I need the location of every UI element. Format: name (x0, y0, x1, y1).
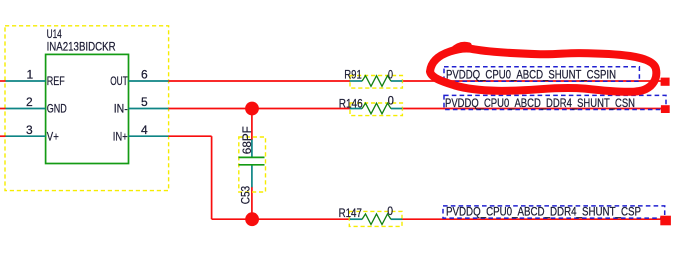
svg-text:0: 0 (387, 204, 393, 218)
pin 4 stub (129, 135, 169, 137)
wire IN+ net: vertical drop (211, 136, 213, 219)
wire bottom net: R147 to off-page square (402, 218, 661, 220)
svg-text:IN-: IN- (114, 102, 128, 116)
wire capacitor branch bottom (251, 187, 253, 219)
pin 5 stub (129, 108, 169, 110)
svg-text:3: 3 (26, 123, 33, 137)
svg-text:1: 1 (26, 68, 33, 82)
amplifier U14 (INA213 current-sense amp) body (46, 54, 129, 163)
annotation: red freehand circle around CSPIN (430, 48, 656, 91)
svg-text:IN+: IN+ (113, 129, 128, 143)
svg-text:0: 0 (388, 68, 393, 82)
wire OUT net: R91 to off-page square (402, 80, 661, 82)
svg-text:PVDDQ_CPU0_ABCD_SHUNT_CSPIN: PVDDQ_CPU0_ABCD_SHUNT_CSPIN (446, 68, 616, 82)
pin 1 stub (6, 80, 46, 82)
pin 6 stub (129, 80, 169, 82)
svg-text:R91: R91 (344, 68, 362, 82)
annotation: pen overshoot at top-left of circle (452, 45, 469, 51)
svg-text:5: 5 (141, 95, 148, 109)
off-page connector square (CSP) (660, 216, 671, 226)
wire IN+ net: pin4 horizontal (169, 135, 212, 137)
resistor R147 (349, 211, 402, 226)
svg-text:6: 6 (141, 68, 148, 82)
svg-text:V+: V+ (47, 129, 59, 143)
wire pin1 left stub (0, 80, 6, 82)
resistor R146 (350, 103, 403, 116)
svg-text:2: 2 (26, 95, 33, 109)
wire pin2 left stub (0, 108, 6, 110)
svg-text:REF: REF (47, 74, 65, 88)
svg-text:PVDDQ_CPU0_ABCD_DDR4_SHUNT_CSN: PVDDQ_CPU0_ABCD_DDR4_SHUNT_CSN (445, 96, 635, 110)
capacitor C53 (239, 137, 266, 192)
hierarchical block dashed outline (5, 26, 169, 191)
pin 3 stub (6, 135, 46, 137)
pin 2 stub (6, 108, 46, 110)
off-page connector square (CSPIN) (661, 78, 670, 86)
svg-text:R146: R146 (339, 96, 363, 110)
wire capacitor branch top (251, 109, 253, 141)
off-page connector square (CSN) (661, 105, 670, 113)
resistor R91 (350, 76, 403, 89)
wire IN- net: pin5 to R146 (169, 108, 350, 110)
svg-text:4: 4 (141, 123, 148, 137)
net label PVDDQ_CPU0_ABCD_SHUNT_CSPIN (444, 67, 639, 82)
wire IN- net: R146 to off-page square (402, 108, 661, 110)
svg-text:OUT: OUT (110, 74, 128, 88)
net label PVDDQ_CPU0_ABCD_DDR4_SHUNT_CSN (444, 95, 666, 110)
svg-text:R147: R147 (339, 206, 363, 220)
wire bottom net: to R147 (212, 218, 351, 220)
wire OUT net: pin6 to R91 (169, 80, 350, 82)
svg-text:0: 0 (388, 94, 395, 108)
svg-text:C53: C53 (239, 186, 253, 205)
net label PVDDQ_CPU0_ABCD_DDR4_SHUNT_CSP (443, 204, 665, 218)
svg-text:PVDDQ_CPU0_ABCD_DDR4_SHUNT_CSP: PVDDQ_CPU0_ABCD_DDR4_SHUNT_CSP (446, 204, 641, 218)
junction node at bottom net / C53 (245, 212, 259, 226)
svg-text:GND: GND (47, 102, 67, 116)
svg-text:INA213BIDCKR: INA213BIDCKR (47, 40, 116, 54)
wire pin3 left stub (0, 135, 6, 137)
svg-text:68PF: 68PF (240, 126, 254, 154)
junction node at IN- / C53 (245, 102, 259, 116)
